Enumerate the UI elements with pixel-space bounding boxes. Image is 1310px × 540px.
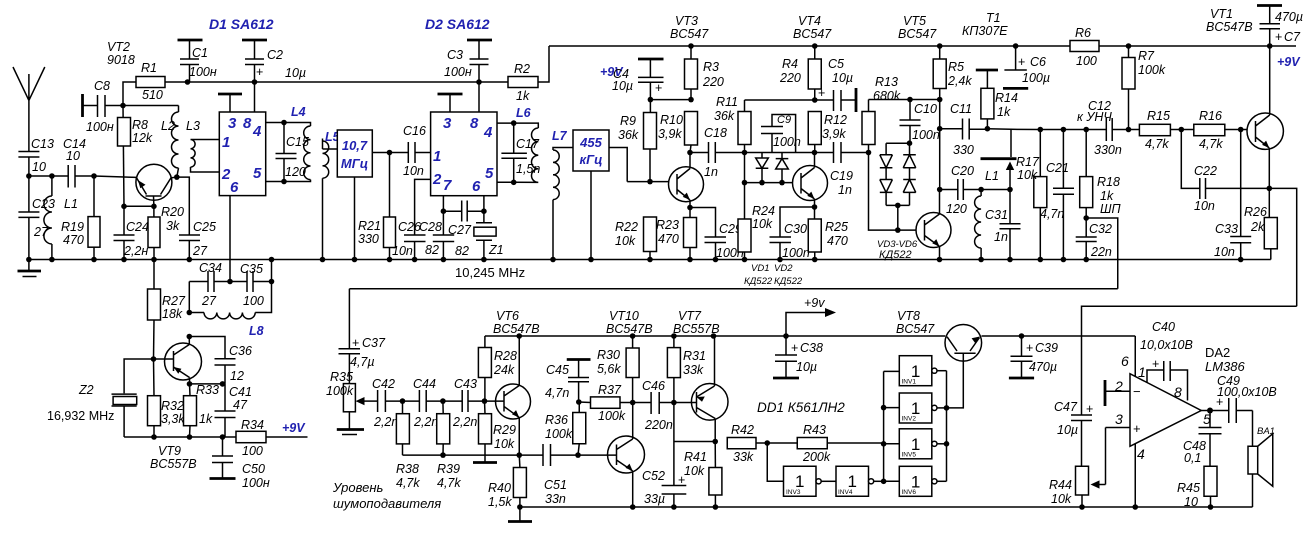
inverter INV6 [899,466,946,496]
mid rail k UNCh [987,128,1248,131]
svg-text:330n: 330n [1094,143,1122,157]
svg-text:C20: C20 [951,164,974,178]
svg-text:R25: R25 [825,220,848,234]
svg-text:Уровень: Уровень [332,480,384,495]
svg-text:R15: R15 [1147,109,1170,123]
svg-text:4,7k: 4,7k [437,476,461,490]
svg-text:2k: 2k [1250,220,1265,234]
svg-text:DA2: DA2 [1205,345,1230,360]
inductor L6 [514,106,539,182]
pin3 stub terminal [218,94,242,112]
audio feed wire to LM386 [1082,306,1297,415]
svg-text:10µ: 10µ [612,79,633,93]
pin6 supply wire [1134,336,1136,376]
svg-text:33n: 33n [545,492,566,506]
svg-text:100н: 100н [86,120,114,134]
capacitor C23 [18,176,55,260]
svg-text:R31: R31 [683,349,706,363]
svg-text:R12: R12 [824,113,847,127]
resistor R2 [479,46,549,103]
capacitor C27 [443,201,484,259]
svg-text:4: 4 [252,123,262,140]
svg-text:L2: L2 [161,119,175,133]
node dot [881,405,887,411]
svg-text:R28: R28 [494,349,517,363]
capacitor C26 [392,220,426,260]
svg-text:Z2: Z2 [78,383,94,397]
node dot [516,333,522,339]
svg-text:120: 120 [285,165,306,179]
node dot [687,150,693,156]
resistor R45 [1177,466,1217,509]
capacitor C9 [761,114,801,153]
resistor R5 [933,46,972,100]
svg-text:R2: R2 [514,62,530,76]
inductor L1 [44,176,78,260]
capacitor C37 [339,336,386,384]
node dot [220,381,226,387]
capacitor C16 [390,124,431,178]
inverter INV3 [784,466,837,496]
svg-text:10: 10 [66,149,80,163]
capacitor C14 [63,137,94,188]
resistor R19 [61,176,100,260]
svg-text:L4: L4 [291,105,306,119]
inverter INV2 [899,393,946,423]
svg-text:4,7k: 4,7k [1199,137,1223,151]
svg-text:LM386: LM386 [1205,359,1246,374]
svg-text:5: 5 [485,165,494,182]
svg-text:8: 8 [243,115,252,132]
svg-text:1n: 1n [704,165,718,179]
node dot [907,140,913,146]
wire R13 top to R5 node [869,99,940,101]
svg-text:82: 82 [455,244,469,258]
svg-text:C7: C7 [1284,30,1301,44]
capacitor C44 [403,377,443,429]
wire ShP down [1086,218,1118,289]
svg-text:4,7µ: 4,7µ [350,355,375,369]
resistor R16 [1194,109,1225,151]
svg-text:D2 SA612: D2 SA612 [425,16,490,32]
svg-text:R35: R35 [330,370,353,384]
node dot [26,173,32,179]
resistor R18 [1080,130,1120,219]
node dot [151,434,157,440]
svg-text:C37: C37 [362,336,386,350]
resistor R3 [685,46,724,100]
node dot [481,208,487,214]
wire collector bus y441.5 [674,441,715,443]
node dot [688,97,694,103]
+9V top rail [549,45,1296,47]
diode VD2 [774,153,803,288]
wire L1 node to C31 [981,189,1010,191]
capacitor C10 [900,100,940,144]
inductor L1 quad coil [975,169,999,260]
resistor R13 [862,75,901,153]
node dot VT3 emitter [687,205,693,211]
resistor R20 [148,205,184,260]
svg-text:C43: C43 [454,377,477,391]
wire R11 top to R4 node [745,99,815,101]
capacitor C38 [773,336,823,378]
svg-text:6: 6 [230,179,239,196]
svg-text:R17: R17 [1016,155,1040,169]
node dot on rail [937,43,943,49]
svg-text:BA1: BA1 [1257,426,1275,437]
capacitor C48 [1183,411,1222,467]
svg-text:2,2н: 2,2н [123,244,148,258]
svg-text:BC547B: BC547B [493,322,540,336]
node dot [187,434,193,440]
node dot VT9 emitter [187,381,193,387]
pin6 wire down [229,196,231,282]
svg-text:BC547: BC547 [670,27,709,41]
transistor VT8 [945,325,982,362]
svg-text:3: 3 [1115,411,1123,427]
node dot [812,97,818,103]
svg-text:МГц: МГц [341,156,368,171]
crystal Z1 [474,211,504,259]
svg-text:C24: C24 [126,220,149,234]
svg-text:1: 1 [1138,364,1146,380]
capacitor C15 [276,123,309,182]
resistor R14 [976,70,1018,129]
svg-text:C6: C6 [1030,55,1046,69]
svg-text:330: 330 [358,232,379,246]
svg-text:D1 SA612: D1 SA612 [209,16,274,32]
resistor R43 [767,423,883,464]
capacitor C2 [242,40,306,82]
capacitor C25 [179,220,216,260]
resistor R41 [684,442,722,508]
node dot [937,97,943,103]
node dot [671,400,677,406]
svg-text:VT3: VT3 [675,14,698,28]
wire emitter bus y455 [403,454,544,456]
resistor R30 [597,336,639,403]
capacitor C12 [1077,99,1122,157]
capacitor C4 [612,59,664,100]
wire A y152 R11 to R12 [745,152,815,154]
svg-text:C38: C38 [800,341,823,355]
resistor R31 [667,336,706,403]
node dot VT4 collector [812,150,818,156]
transistor T1 channel bar [962,11,1017,190]
transistor VT4 [793,153,828,208]
svg-text:кГц: кГц [580,152,603,167]
potentiometer R44 [1049,466,1089,507]
node dot [482,398,488,404]
svg-text:330: 330 [953,143,974,157]
node dot [511,120,517,126]
svg-text:C35: C35 [240,262,263,276]
capacitor C18 [690,126,745,179]
svg-text:+: + [1133,421,1141,436]
node dot [1126,127,1132,133]
svg-text:510: 510 [142,88,163,102]
svg-text:10,0x10В: 10,0x10В [1140,338,1193,352]
svg-text:220: 220 [779,71,801,85]
svg-text:C10: C10 [914,102,937,116]
svg-text:+9v: +9v [804,296,825,310]
capacitor C5 [815,57,856,112]
node dot [185,79,191,85]
svg-text:+9V: +9V [1277,55,1301,69]
transistor VT2 [94,40,177,206]
svg-text:+: + [1026,341,1033,355]
svg-text:1k: 1k [1100,189,1114,203]
svg-text:680k: 680k [873,89,901,103]
vertical R11 node to base wire [744,153,746,183]
svg-text:R29: R29 [493,423,516,437]
svg-text:BC547B: BC547B [1206,20,1253,34]
inductor L3 [186,119,219,172]
wire base to C24 [124,205,154,207]
node dot [866,150,872,156]
node dot [742,150,748,156]
capacitor C11 [940,102,988,157]
inductor L4 [284,105,311,182]
svg-text:R37: R37 [598,383,622,397]
capacitor C28 [419,211,454,259]
node dot [783,333,789,339]
upper ground rail [29,259,1271,261]
svg-text:R10: R10 [660,113,683,127]
svg-text:3: 3 [443,115,452,132]
lower ground rail [520,506,1253,508]
svg-text:R1: R1 [141,61,157,75]
node dot [779,180,785,186]
svg-text:C51: C51 [544,478,567,492]
capacitor C30 [770,207,815,260]
svg-text:C25: C25 [193,220,216,234]
svg-text:+: + [1152,357,1159,371]
svg-text:100k: 100k [326,384,354,398]
svg-text:R3: R3 [703,60,719,74]
svg-text:27: 27 [192,244,208,258]
svg-text:C39: C39 [1035,341,1058,355]
svg-text:C41: C41 [229,385,252,399]
wire emitter to audio takeoff [1269,188,1296,306]
svg-text:R40: R40 [488,481,511,495]
svg-text:C13: C13 [31,137,54,151]
wire C4 to R3 column [650,99,691,101]
node dot [711,333,717,339]
svg-text:+: + [1086,402,1093,416]
svg-text:C2: C2 [267,48,283,62]
inverter INV4 [836,466,884,496]
svg-text:C21: C21 [1046,161,1069,175]
capacitor C49 [1210,374,1277,423]
svg-text:R33: R33 [196,383,219,397]
svg-text:C26: C26 [398,220,421,234]
svg-text:INV3: INV3 [786,489,801,496]
svg-text:10n: 10n [1194,199,1215,213]
svg-text:+: + [791,341,798,355]
svg-text:R30: R30 [597,348,620,362]
svg-text:R44: R44 [1049,478,1072,492]
resistor R17 [1016,130,1047,260]
wire VT7 base column to C52 [673,403,675,486]
node dot output pin5 [1207,408,1213,414]
svg-text:INV5: INV5 [902,452,917,459]
svg-text:C9: C9 [777,114,791,126]
svg-text:100: 100 [1076,54,1097,68]
node dot [387,150,393,156]
resistor R6 [1070,26,1099,68]
lower mid +9 rail [485,335,1135,337]
svg-text:C18: C18 [704,126,727,140]
svg-text:КД522: КД522 [744,276,773,287]
svg-text:C30: C30 [784,222,807,236]
svg-text:27: 27 [33,225,49,239]
svg-text:R26: R26 [1244,205,1267,219]
resistor R26 [1244,188,1277,259]
svg-text:INV4: INV4 [838,489,853,496]
svg-text:VD2: VD2 [774,263,793,274]
inductor L8 [189,282,271,339]
wire 455 out to VT3 base [627,181,668,183]
svg-text:DD1 К561ЛН2: DD1 К561ЛН2 [757,400,845,415]
svg-text:R19: R19 [61,220,84,234]
svg-text:C44: C44 [413,377,436,391]
potentiometer R35 [326,370,364,435]
input bus DD1 [884,371,900,481]
svg-text:82: 82 [425,243,439,257]
svg-text:L7: L7 [552,129,568,143]
node dot [281,120,287,126]
resistor R1 [123,61,188,106]
svg-text:4,7n: 4,7n [1040,207,1064,221]
svg-text:1: 1 [433,148,441,165]
svg-text:INV1: INV1 [902,379,917,386]
node dot on rail [1126,43,1132,49]
svg-text:470: 470 [827,234,848,248]
svg-text:КД522: КД522 [774,276,803,287]
node dot [1179,127,1185,133]
R44 wiper arrow [1091,428,1106,489]
rail node dots [26,257,32,263]
svg-text:C19: C19 [830,169,853,183]
transistor VT10 [578,403,645,508]
node dot [985,126,991,132]
capacitor C39 [1009,336,1058,378]
wire R42 node to INV3 [767,443,783,481]
svg-text:Т1: Т1 [986,11,1001,25]
svg-text:VT1: VT1 [1210,7,1233,21]
svg-text:R45: R45 [1177,481,1200,495]
svg-text:8: 8 [1174,384,1182,400]
ground symbol left [18,260,42,277]
node dot [576,399,582,405]
svg-text:1k: 1k [997,105,1011,119]
wire to VT8 base [947,361,964,408]
capacitor C29 [690,208,744,261]
svg-text:1n: 1n [994,230,1008,244]
svg-text:2,4k: 2,4k [947,74,972,88]
svg-text:12: 12 [230,369,244,383]
node dot [630,400,636,406]
svg-text:4,7k: 4,7k [396,476,420,490]
svg-text:C50: C50 [242,462,265,476]
node dot [895,227,901,233]
node dot [764,440,770,446]
svg-text:6: 6 [1121,353,1129,369]
svg-text:100n: 100n [773,135,801,149]
node dot VT9 collector [187,334,193,340]
svg-text:0,1: 0,1 [1184,451,1201,465]
capacitor C45 [545,360,591,403]
IC D1 SA612 [219,112,265,196]
svg-text:4: 4 [483,124,493,141]
capacitor C42 [372,377,403,429]
node dot [440,398,446,404]
node dot VT9 base [151,356,157,362]
node dots lower rail [517,504,523,510]
antenna [13,67,45,152]
svg-text:C52: C52 [642,469,665,483]
capacitor C3 [444,40,492,82]
diode bridge VD3-VD6 [877,143,918,261]
node dot [252,79,258,85]
svg-text:R22: R22 [615,220,638,234]
svg-text:10k: 10k [615,234,636,248]
svg-text:R38: R38 [396,462,419,476]
resistor R4 [779,46,821,100]
capacitor C41 [215,384,252,437]
svg-text:R5: R5 [948,60,964,74]
transistor VT7 [674,336,728,442]
node dot on rail [1267,43,1273,49]
node dot [1019,333,1025,339]
svg-text:R27: R27 [162,294,186,308]
capacitor C51 [543,444,578,506]
node dot [1038,127,1044,133]
resistor R9 [618,100,657,182]
svg-text:C42: C42 [372,377,395,391]
bandpass filter 455 kHz [573,130,627,260]
node dot [187,310,193,316]
svg-text:R7: R7 [1138,49,1155,63]
transistor VT3 [669,153,704,208]
svg-text:9018: 9018 [107,53,135,67]
wire R5 node down [939,100,941,129]
svg-text:C28: C28 [419,220,442,234]
capacitor C31 [985,190,1021,260]
svg-text:R16: R16 [1199,109,1222,123]
svg-text:36k: 36k [714,109,735,123]
node dot [671,333,677,339]
resistor R33 [184,384,213,437]
pin8 stub from C2 node [254,82,256,112]
node dot [91,173,97,179]
svg-text:10k: 10k [1017,168,1038,182]
svg-text:100н: 100н [189,65,217,79]
capacitor C17 [501,123,540,182]
svg-text:R20: R20 [161,205,184,219]
svg-text:C1: C1 [192,46,208,60]
svg-text:C8: C8 [94,79,110,93]
pin3 wire [1106,427,1131,429]
wire apex to node [1201,410,1210,412]
svg-text:R8: R8 [132,118,148,132]
svg-text:+: + [256,65,263,79]
svg-text:10n: 10n [403,164,424,178]
inverter INV1 [899,356,946,386]
svg-text:100: 100 [242,444,263,458]
